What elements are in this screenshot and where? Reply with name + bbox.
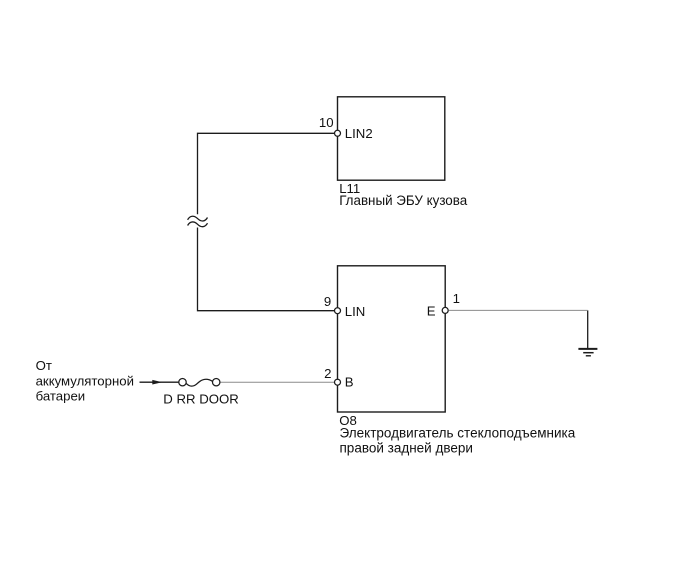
svg-text:аккумуляторной: аккумуляторной [36, 373, 134, 388]
svg-text:9: 9 [324, 294, 331, 309]
svg-text:LIN2: LIN2 [345, 126, 373, 141]
svg-text:Главный ЭБУ кузова: Главный ЭБУ кузова [339, 193, 468, 208]
svg-text:От: От [36, 358, 52, 373]
svg-text:D RR DOOR: D RR DOOR [163, 392, 238, 407]
svg-text:батареи: батареи [36, 388, 86, 403]
svg-text:правой задней двери: правой задней двери [340, 440, 473, 455]
svg-text:B: B [345, 375, 354, 390]
svg-text:2: 2 [324, 366, 331, 381]
svg-text:1: 1 [453, 291, 460, 306]
svg-text:E: E [427, 304, 436, 319]
svg-text:LIN: LIN [345, 304, 366, 319]
svg-text:10: 10 [319, 115, 334, 130]
svg-text:Электродвигатель стеклоподъемн: Электродвигатель стеклоподъемника [340, 425, 576, 440]
